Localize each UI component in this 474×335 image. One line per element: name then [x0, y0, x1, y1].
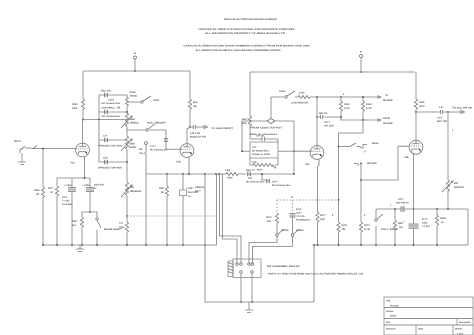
title block outer: [384, 297, 473, 335]
input jack J1: [20, 146, 31, 153]
wire plate node right: [83, 119, 128, 121]
svg-text:Crab 50m: Crab 50m: [62, 203, 72, 206]
wire grid V2A: [294, 150, 312, 152]
wire treble cap row 1: [99, 95, 127, 120]
capacitor C4 hanging: [261, 173, 291, 187]
svg-text:R14?: R14?: [257, 169, 263, 172]
wire pot down: [126, 162, 128, 182]
svg-text:CREATED BY JIM22I FOR EDUCATIO: CREATED BY JIM22I FOR EDUCATIONAL AND MA…: [199, 28, 296, 31]
svg-text:1.8K: 1.8K: [320, 218, 325, 221]
svg-text:DUP 300 4V: DUP 300 4V: [396, 202, 409, 205]
arrow TO LEAD INPUT: [204, 126, 234, 131]
svg-text:LDR4: LDR4: [279, 90, 286, 93]
svg-text:2K: 2K: [161, 191, 164, 194]
svg-text:7.1V 2%: 7.1V 2%: [296, 215, 305, 218]
capacitor C212: [404, 218, 430, 245]
wire cathode rail V1B: [146, 158, 223, 174]
resistor R226 22.1K: [72, 217, 84, 245]
wire plate to tube V2B: [415, 112, 417, 140]
switch LDR2A right: [291, 229, 304, 247]
wire bass shift branch: [82, 212, 97, 217]
svg-text:FROM LEAD OUTPUT: FROM LEAD OUTPUT: [250, 127, 283, 130]
svg-text:Polyethylene: Polyethylene: [296, 219, 311, 222]
wire V2B cathode: [413, 154, 415, 224]
node EQ tap: [447, 111, 449, 113]
svg-text:No Heated Disc: No Heated Disc: [252, 150, 270, 153]
wire grid leak vertical: [204, 174, 206, 245]
wire B2 to bus: [360, 58, 362, 73]
wire V1B grid: [166, 148, 182, 150]
svg-text:R1?0: R1?0: [266, 216, 272, 219]
svg-text:47uF: 47uF: [62, 196, 68, 199]
capacitor C4 coupling reverb: [317, 115, 341, 128]
resistor R472 100K plate V2B: [414, 72, 425, 112]
resistor R126 4k: [435, 209, 446, 245]
svg-text:T? 35V: T? 35V: [62, 200, 70, 203]
svg-text:MID/BASS: MID/BASS: [130, 190, 142, 193]
node rail dots: [166, 173, 220, 175]
supply terminal B2: [360, 51, 363, 58]
node gnd dots left: [42, 244, 206, 246]
wire switch right to relay: [253, 247, 293, 264]
svg-text:4N? 113F: 4N? 113F: [324, 125, 335, 128]
svg-text:R43?: R43?: [342, 224, 348, 227]
resistor load 220K: [291, 92, 341, 105]
svg-text:BASS SHIFT: BASS SHIFT: [104, 228, 123, 231]
svg-text:R1?2: R1?2: [364, 224, 370, 227]
switch LDR6: [127, 96, 160, 103]
svg-text:NO Ceramic Disc: NO Ceramic Disc: [246, 181, 265, 184]
svg-text:SPRAGUE 715P 400V: SPRAGUE 715P 400V: [98, 167, 122, 170]
jack SEND: [339, 142, 379, 153]
node bus2 junction: [360, 71, 362, 73]
node rail dots: [394, 208, 449, 210]
capacitor C140 grid: [150, 130, 168, 152]
resistor R22 2K: [159, 174, 169, 245]
svg-text:LDR6: LDR6: [153, 99, 160, 102]
node plate junction: [82, 119, 84, 121]
svg-text:VOL1: VOL1: [139, 152, 146, 155]
wire dashed channel line: [277, 199, 339, 201]
svg-text:R150: R150: [227, 177, 233, 180]
svg-text:C31?: C31?: [103, 157, 109, 160]
wire to reverb: [341, 94, 393, 102]
wire input to V1A grid: [31, 148, 77, 150]
svg-text:LDR2A: LDR2A: [281, 229, 289, 232]
svg-text:27uF: 27uF: [296, 208, 302, 211]
svg-text:V1A: V1A: [71, 162, 76, 165]
svg-text:Date: Date: [418, 328, 424, 331]
svg-text:FROM: FROM: [383, 117, 390, 120]
svg-text:PATH TO GND FOR R180 and C214: PATH TO GND FOR R180 and C214 ACTIVATED …: [268, 273, 363, 276]
label grid leak: [195, 186, 205, 193]
jack RETURN: [354, 162, 377, 166]
switch load: [279, 90, 295, 98]
switch LDR2A left: [276, 229, 289, 243]
svg-text:R22?: R22?: [72, 220, 78, 223]
capacitor C6 39pF: [246, 169, 294, 184]
svg-text:+ C20?: + C20?: [186, 187, 194, 190]
resistor R2 1.8K cathode V2A: [316, 160, 326, 245]
svg-text:C2??: C2??: [398, 198, 404, 201]
wire switch left to relay: [249, 243, 277, 264]
node send tap: [338, 146, 340, 148]
diamond FROM LEAD node: [242, 119, 294, 124]
node bus1 junction: [134, 70, 136, 72]
capacitor C105: [101, 107, 121, 118]
wire V2A plate: [316, 117, 318, 146]
wire return down: [360, 180, 362, 222]
svg-text:C?4?: C?4?: [150, 145, 156, 148]
svg-text:ALL INFORMATION PROPERTY OF ME: ALL INFORMATION PROPERTY OF MESA BOOGIE …: [205, 32, 285, 35]
svg-text:R132: R132: [344, 103, 350, 106]
switch BASS SHIFT: [96, 218, 123, 245]
wire box output to grid: [278, 150, 295, 152]
svg-text:R10B: R10B: [130, 91, 136, 94]
svg-text:REVERB: REVERB: [383, 122, 393, 125]
node dashed B: [338, 199, 340, 201]
svg-text:R61?: R61?: [242, 118, 248, 121]
svg-text:474K: 474K: [366, 107, 372, 110]
wire EQ rail: [376, 208, 401, 210]
node bass shift: [89, 211, 91, 213]
svg-text:15K: 15K: [193, 105, 198, 108]
svg-text:Title: Title: [386, 300, 391, 303]
svg-text:C4?7: C4?7: [437, 117, 443, 120]
svg-text:39pF C?: 39pF C?: [246, 169, 256, 172]
capacitor C47 out: [416, 106, 448, 123]
svg-text:1M: 1M: [139, 148, 142, 151]
resistor R306 1M: [34, 149, 45, 245]
svg-text:MASTER: MASTER: [454, 186, 464, 189]
node treble pot bottom: [126, 161, 128, 163]
svg-text:C4?: C4?: [252, 146, 257, 149]
wire treble cap row 2: [99, 111, 127, 113]
pot knob VOL1: [139, 142, 147, 245]
svg-text:Revision: Revision: [386, 328, 396, 331]
svg-text:SPRAGUE 715P 400V: SPRAGUE 715P 400V: [98, 145, 122, 148]
switch PULL DEEP: [375, 209, 399, 245]
svg-text:1K: 1K: [50, 191, 53, 194]
svg-text:T4?: T4?: [119, 222, 124, 225]
ground input jack: [18, 153, 26, 165]
wire rail drop A: [216, 174, 218, 216]
capacitor C107 sprague: [98, 140, 127, 170]
svg-text:LOAD RESISTOR: LOAD RESISTOR: [291, 102, 308, 105]
ground bus right: [314, 244, 468, 246]
wire bus1: [83, 70, 190, 72]
svg-text:Preamp: Preamp: [390, 305, 399, 308]
svg-text:2?M: 2?M: [252, 161, 257, 164]
svg-text:TuF 10L: TuF 10L: [256, 135, 265, 138]
resistor R132b 47.4K: [359, 222, 370, 245]
node riser junction: [313, 244, 315, 246]
node V1B plate: [189, 126, 191, 128]
node relay gnd dots: [240, 301, 253, 303]
potentiometer MID 75K: [121, 182, 142, 216]
node reverb send top: [340, 96, 342, 98]
svg-text:TREBLE: TREBLE: [130, 122, 140, 125]
resistor R220 10k: [393, 209, 404, 245]
ground bus left: [43, 244, 217, 246]
wire V1A cathode: [84, 157, 86, 178]
svg-text:SET 3%: SET 3%: [319, 112, 327, 115]
tube V1A: [71, 143, 90, 164]
svg-text:V1B: V1B: [176, 161, 181, 164]
wire load resistor line: [271, 97, 284, 118]
capacitor C40 lead send: [190, 125, 207, 139]
svg-text:V2A: V2A: [305, 163, 310, 166]
resistor R150 1.5M: [222, 169, 246, 180]
wire rail drop B: [220, 174, 242, 264]
node cathode: [84, 177, 86, 179]
resistor R102 100K: [72, 71, 85, 120]
capacitor C20 22uF: [180, 174, 199, 245]
relay box: [233, 259, 261, 278]
svg-text:R472: R472: [419, 105, 425, 108]
tube V2A: [305, 146, 324, 166]
svg-text:10M(2%): 10M(2%): [195, 186, 205, 189]
svg-text:47.4K: 47.4K: [364, 228, 370, 231]
svg-text:C104: C104: [108, 99, 114, 102]
wire dashed R180 drop: [276, 200, 278, 213]
svg-text:C212: C212: [422, 222, 428, 225]
svg-text:NO Ceramic Disc: NO Ceramic Disc: [272, 184, 291, 187]
svg-text:250K: 250K: [130, 143, 136, 146]
svg-text:+ C306: + C306: [82, 184, 90, 187]
supply terminal B1: [134, 52, 137, 59]
svg-text:1M: 1M: [36, 193, 39, 196]
resistor R140: [119, 216, 129, 245]
svg-text:INPUT: INPUT: [14, 140, 21, 143]
svg-text:75K: 75K: [130, 186, 135, 189]
potentiometer TREBLE 250K: [121, 113, 139, 162]
box mixer network: [250, 142, 278, 158]
capacitor C306: [82, 178, 105, 212]
capacitor C104 750p: [101, 90, 122, 105]
wire reverb send down: [339, 120, 364, 200]
svg-text:R130: R130: [366, 103, 372, 106]
wire from reverb: [340, 116, 393, 125]
svg-text:2?0K: 2?0K: [299, 92, 305, 95]
svg-text:ALL RESISTORS 2% METAL FILM UN: ALL RESISTORS 2% METAL FILM UNLESS OTHER…: [196, 49, 281, 52]
svg-text:22.1: 22.1: [72, 224, 77, 227]
ground symbol relay: [245, 302, 253, 313]
wire cathode rail V1A: [57, 177, 90, 179]
svg-text:Author: Author: [386, 310, 394, 313]
svg-text:TO: TO: [385, 94, 388, 97]
resistor R130 474K: [361, 96, 372, 120]
title block texts: [386, 300, 470, 335]
svg-text:R306: R306: [34, 189, 40, 192]
wire EQ rail end down: [467, 209, 469, 245]
tube V2B: [404, 140, 423, 159]
wire return to V2B grid: [361, 146, 410, 180]
wire relay pins down: [241, 273, 252, 302]
node dashed tap: [126, 215, 128, 217]
jack tip contact: [33, 146, 37, 149]
svg-text:C6?: C6?: [248, 177, 253, 180]
wire B1 to bus: [134, 59, 136, 71]
svg-text:BLK: BLK: [193, 101, 198, 104]
svg-text:Bright 1uF 50V: Bright 1uF 50V: [190, 136, 207, 139]
wire V1A plate up: [82, 120, 84, 144]
svg-text:7.1 50V: 7.1 50V: [422, 225, 430, 228]
svg-text:C4??: C4??: [272, 181, 278, 184]
svg-text:1.5M: 1.5M: [225, 169, 230, 172]
svg-text:MARK III BLACK STRIPE 5198 100: MARK III BLACK STRIPE 5198 100W DRG# SCH…: [224, 18, 277, 21]
svg-text:SM? 7HP: SM? 7HP: [437, 120, 447, 123]
resistor R132 471K: [339, 97, 350, 120]
wire plate to tube: [187, 127, 190, 144]
svg-text:Polyest or 100W: Polyest or 100W: [252, 153, 271, 156]
node V2B plate: [415, 111, 417, 113]
svg-text:RETURN: RETURN: [367, 162, 377, 165]
wire dashed corner to bus: [216, 216, 218, 245]
capacitor C210 series: [396, 198, 468, 212]
wire box left tap: [241, 121, 250, 152]
svg-text:R2??: R2??: [320, 214, 326, 217]
svg-text:C21?: C21?: [296, 212, 302, 215]
node plate V2A top: [316, 96, 318, 118]
wire gnd bus low: [205, 245, 314, 302]
capacitor C214: [290, 200, 311, 234]
title block rows: [384, 308, 473, 326]
capacitor C315: [62, 178, 76, 245]
svg-text:R12B: R12B: [440, 217, 446, 220]
svg-text:Document: Document: [459, 321, 470, 324]
node return junction: [360, 179, 362, 181]
svg-text:R4?7: R4?7: [195, 190, 201, 193]
resistor R10B: [126, 91, 138, 112]
svg-text:R22?: R22?: [159, 187, 165, 190]
svg-text:C1?: C1?: [103, 135, 108, 138]
tube V1B: [176, 144, 194, 164]
node input junction: [42, 148, 44, 150]
resistor R43 43k: [337, 200, 348, 245]
svg-text:100K: 100K: [72, 107, 78, 110]
svg-text:BASS: BASS: [130, 146, 137, 149]
svg-text:100K: 100K: [419, 101, 425, 104]
svg-text:1M(12): 1M(12): [130, 95, 138, 98]
svg-text:NO Ceramic Disc: NO Ceramic Disc: [102, 115, 121, 118]
resistor R106 15K: [188, 71, 198, 127]
potentiometer MASTER: [442, 112, 464, 209]
svg-text:21K: 21K: [267, 220, 272, 223]
node x100: [98, 119, 100, 121]
capacitor C45 box top: [250, 135, 278, 143]
svg-text:TO EQ OR I/S: TO EQ OR I/S: [452, 107, 473, 110]
svg-text:750p_TRL: 750p_TRL: [101, 90, 113, 93]
svg-text:+ C315: + C315: [64, 184, 72, 187]
relay coil: [228, 261, 233, 277]
svg-text:R2 CHANNEL RELAY: R2 CHANNEL RELAY: [267, 265, 301, 268]
svg-text:C4??: C4??: [324, 121, 330, 124]
wire bus2: [250, 71, 415, 73]
title block columns: [416, 319, 457, 335]
svg-text:SEND: SEND: [372, 142, 379, 145]
node right bus dots: [317, 244, 438, 246]
switch PULL BRIGHT: [127, 122, 167, 132]
svg-text:R102: R102: [72, 103, 78, 106]
svg-text:471K: 471K: [344, 107, 350, 110]
svg-text:22uF 35V: 22uF 35V: [94, 184, 105, 187]
svg-text:Sheets: Sheets: [455, 328, 463, 331]
svg-text:250K: 250K: [130, 118, 136, 121]
wire rail drop C: [223, 174, 238, 264]
node grid V2A: [293, 173, 295, 175]
svg-text:NO Ceramic Dis: NO Ceramic Dis: [150, 149, 168, 152]
svg-text:C105 SMALL_TPL: C105 SMALL_TPL: [101, 107, 121, 110]
capacitor C106 sprague: [98, 120, 127, 148]
svg-text:NO Ceramic Disc: NO Ceramic Disc: [102, 102, 121, 105]
resistor R180 21K: [266, 213, 279, 234]
svg-text:C40? 022: C40? 022: [190, 132, 201, 135]
resistor R14 under box: [250, 158, 278, 172]
wire dashed control line: [127, 215, 217, 217]
svg-text:LDR2A: LDR2A: [296, 229, 304, 232]
wire diamond drop to grid line: [293, 121, 295, 174]
svg-text:27?F: 27?F: [422, 218, 428, 221]
svg-text:5M?: 5M?: [454, 182, 459, 185]
svg-text:PULL BRIGHT: PULL BRIGHT: [147, 122, 167, 125]
resistor R61 100K plate load V2A: [241, 72, 252, 139]
svg-text:REVERB: REVERB: [383, 99, 393, 102]
svg-text:jim32: jim32: [389, 315, 397, 318]
svg-text:CAPACITOR, RESISTOR AND DIODE: CAPACITOR, RESISTOR AND DIODE NUMBERS CO…: [184, 44, 311, 47]
svg-text:R3??: R3??: [48, 187, 54, 190]
arrow TO EQ: [448, 107, 473, 114]
node R10B bottom: [126, 111, 128, 113]
resistor R305 1K: [48, 178, 59, 245]
ground symbol bus: [76, 245, 84, 252]
svg-text:4.6?: 4.6?: [439, 106, 444, 109]
svg-text:V4B: V4B: [404, 156, 409, 159]
svg-text:TO LEAD INPUT: TO LEAD INPUT: [211, 127, 234, 130]
